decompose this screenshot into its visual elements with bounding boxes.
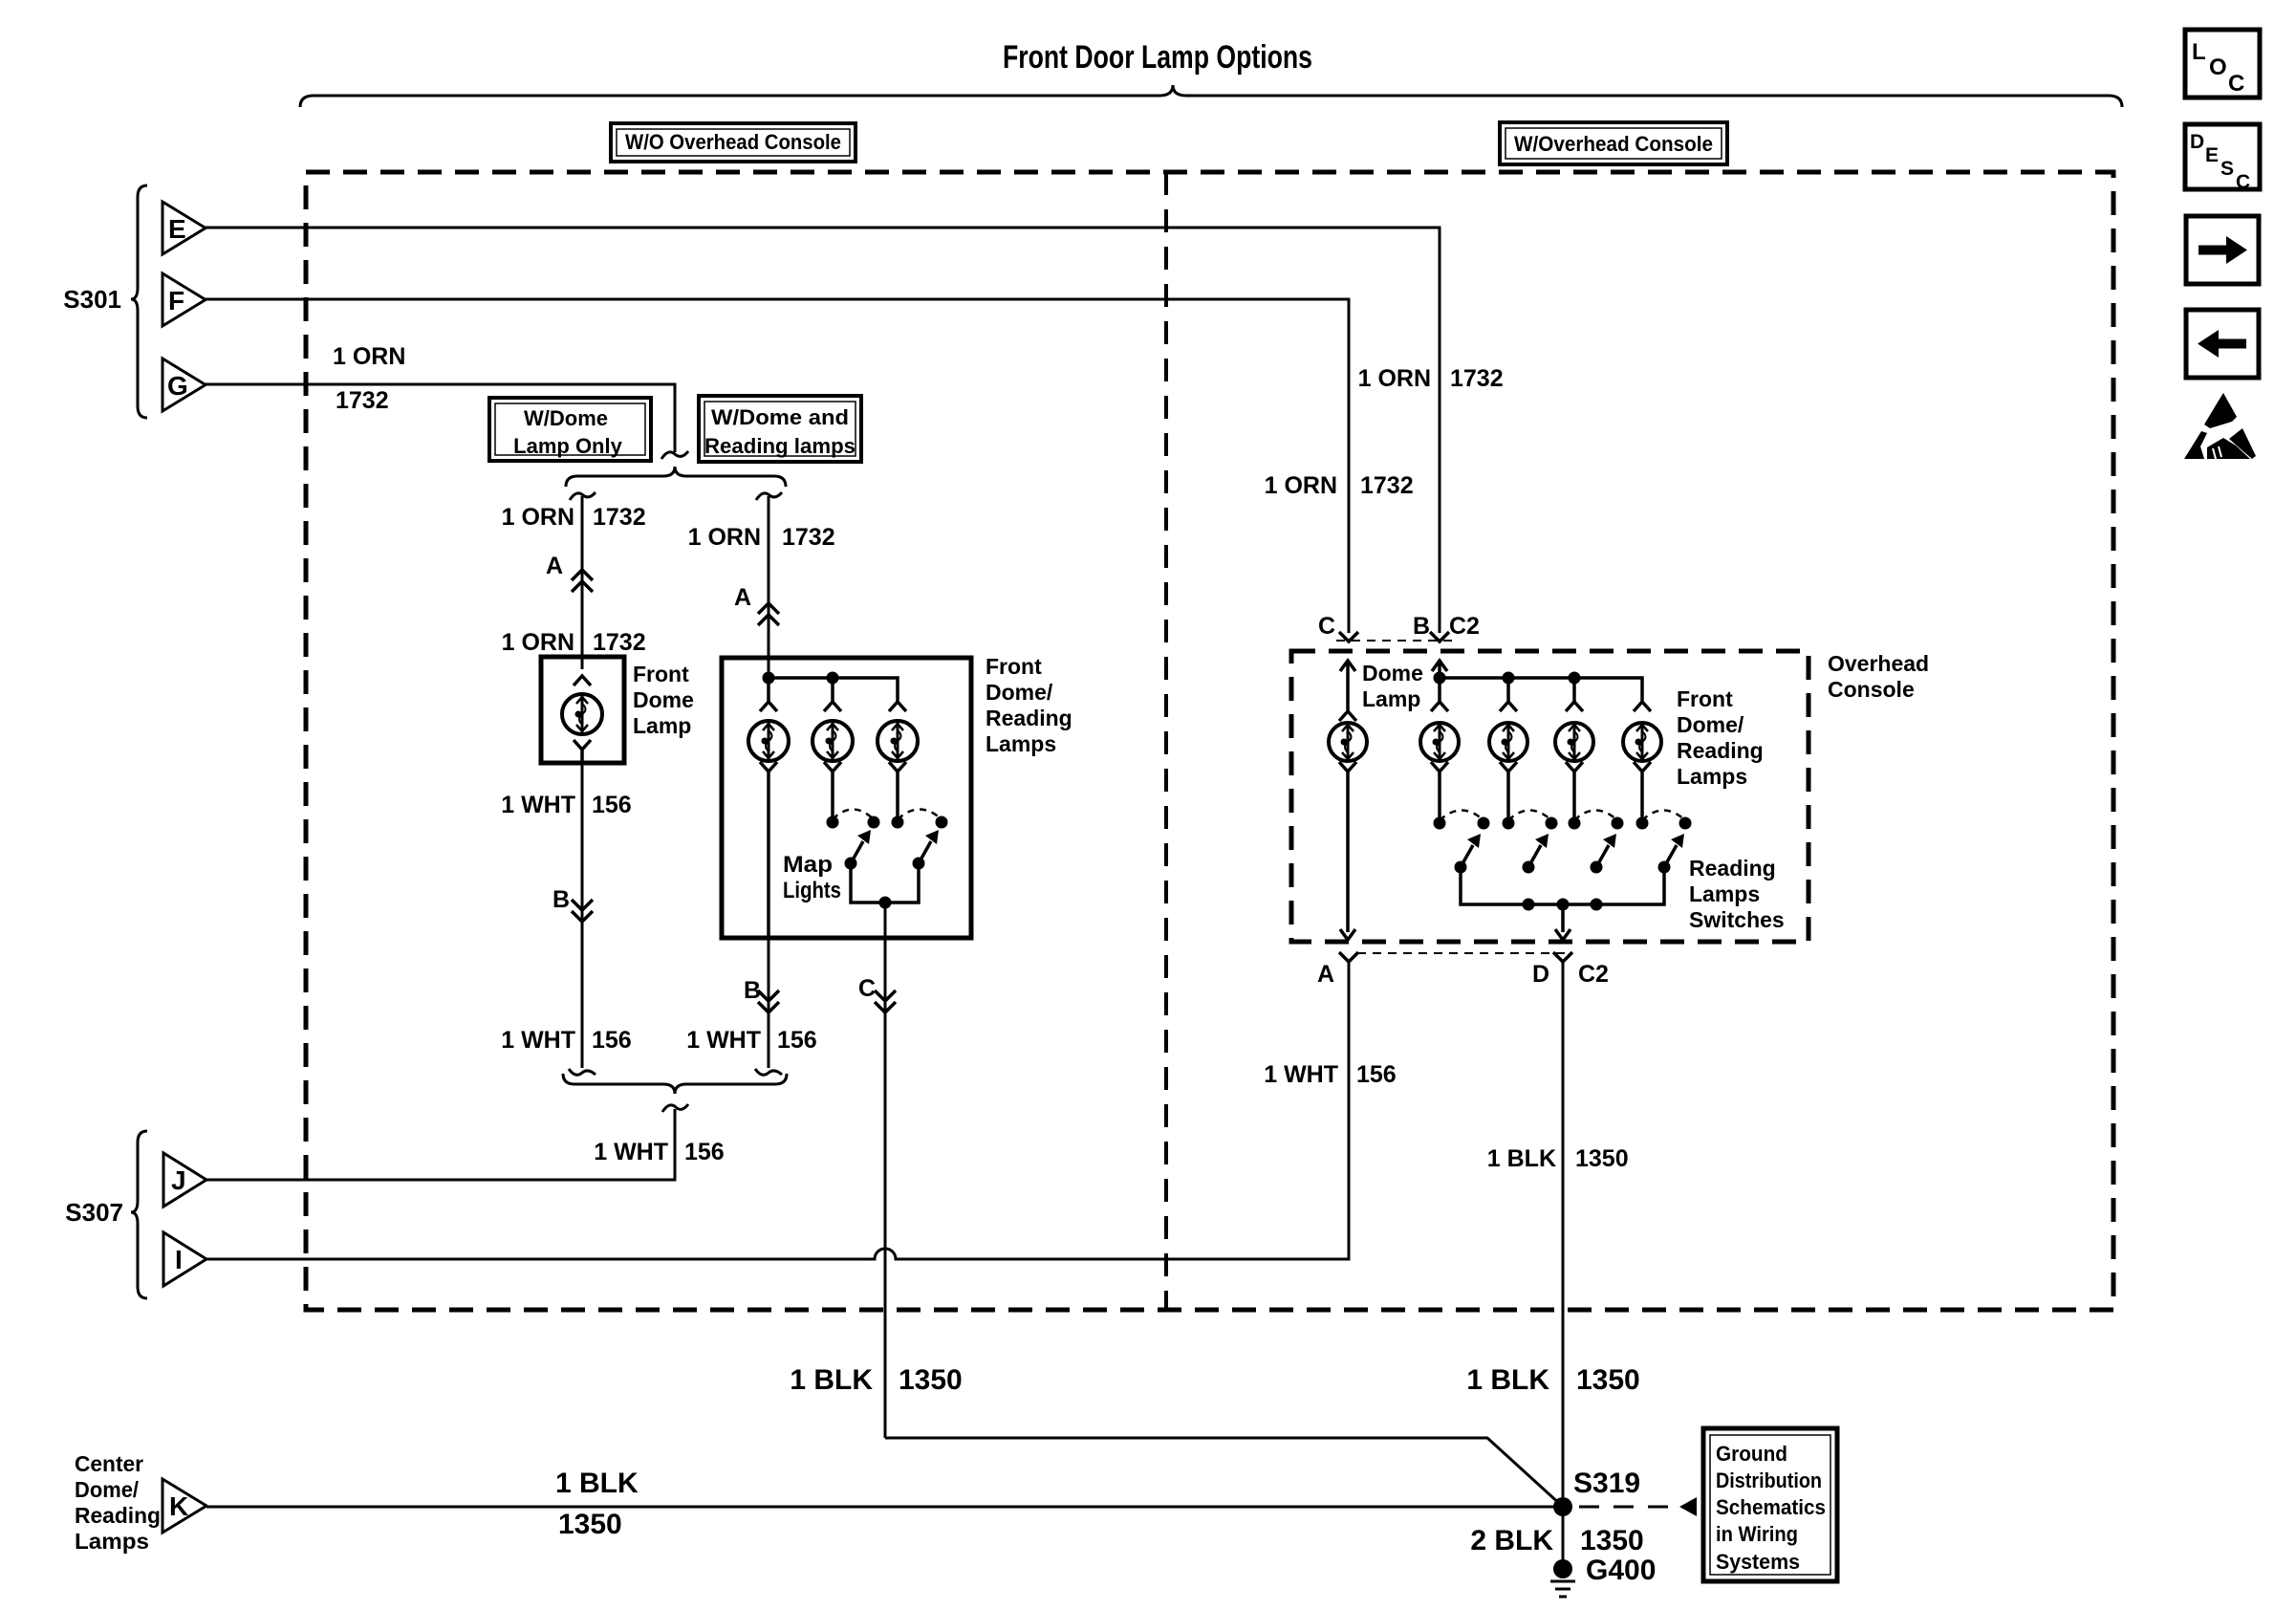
node: console switch 1 throw bbox=[1478, 817, 1490, 830]
svg-text:S307: S307 bbox=[65, 1198, 123, 1227]
svg-text:1350: 1350 bbox=[558, 1509, 622, 1540]
svg-text:1 ORN: 1 ORN bbox=[1265, 472, 1337, 499]
component box: Front Dome/Reading Lamps (map lights) bbox=[722, 658, 971, 938]
svg-text:1 ORN: 1 ORN bbox=[502, 629, 574, 656]
lamp: dome lamp (map box, left) bbox=[748, 721, 789, 761]
svg-text:156: 156 bbox=[592, 792, 632, 818]
lamp terminal chevron (console lamp 3) bbox=[1566, 702, 1583, 711]
svg-text:1732: 1732 bbox=[1450, 365, 1504, 392]
svg-text:Lamps: Lamps bbox=[75, 1529, 149, 1554]
wire: D to S319 (1 BLK 1350) bbox=[1562, 962, 1565, 1507]
lamp: console reading lamp 2 bbox=[1489, 723, 1527, 761]
wire break tilde at left branch bottom bbox=[569, 1069, 596, 1075]
dashed divider between W/O and W/ sections bbox=[1164, 172, 1168, 1310]
svg-text:D: D bbox=[1532, 961, 1549, 988]
svg-text:Schematics: Schematics bbox=[1716, 1495, 1826, 1519]
svg-text:1732: 1732 bbox=[336, 387, 389, 414]
label: Front Dome Lamp bbox=[633, 662, 694, 738]
wire: map lamp 3 to switch pole bbox=[896, 784, 899, 816]
svg-text:1732: 1732 bbox=[1360, 472, 1414, 499]
wire: splice to connector J (1 WHT 156) bbox=[206, 1109, 675, 1180]
lamp terminal chevron (map lamp 1) bbox=[760, 702, 777, 711]
svg-text:Systems: Systems bbox=[1716, 1550, 1800, 1574]
connector half Y at A pin bbox=[1339, 952, 1358, 962]
svg-text:Lamp: Lamp bbox=[1362, 686, 1420, 711]
svg-text:1 WHT: 1 WHT bbox=[594, 1139, 668, 1165]
svg-text:2 BLK: 2 BLK bbox=[1470, 1525, 1553, 1556]
svg-text:Front: Front bbox=[986, 654, 1042, 679]
component box: Front Dome Lamp bbox=[541, 657, 624, 763]
lamp: console dome lamp bbox=[1329, 723, 1367, 761]
svg-text:1732: 1732 bbox=[593, 504, 646, 531]
wire break tilde at B output bottom bbox=[755, 1069, 782, 1075]
wire: left lamp stem bbox=[767, 678, 770, 702]
node: console output bus junction 2 bbox=[1591, 899, 1603, 911]
wire: console ground output D (arrow down) bbox=[1555, 904, 1570, 940]
connector K (center dome/reading lamps) bbox=[162, 1479, 206, 1533]
svg-text:1732: 1732 bbox=[782, 524, 835, 551]
wire: G feed to dome lamp options (1 ORN 1732) bbox=[206, 384, 675, 452]
wire: K to S319 (1 BLK 1350) bbox=[206, 1506, 1558, 1509]
svg-text:C2: C2 bbox=[1449, 613, 1480, 640]
svg-text:I: I bbox=[175, 1245, 183, 1274]
switch arm 1 (console) bbox=[1455, 834, 1482, 874]
svg-text:W/Dome: W/Dome bbox=[524, 406, 608, 430]
svg-text:C2: C2 bbox=[1578, 961, 1609, 988]
wire: console switch commons to output bus bbox=[1461, 867, 1664, 904]
svg-text:Lamp: Lamp bbox=[633, 713, 691, 738]
icon box arrow right bbox=[2186, 216, 2259, 284]
node: output bus junction bbox=[879, 897, 892, 909]
connector F (S301 pin F) bbox=[162, 273, 206, 326]
svg-text:in Wiring: in Wiring bbox=[1716, 1522, 1798, 1546]
switch arm 3 (console) bbox=[1591, 834, 1617, 874]
brace: S307 connector group bbox=[131, 1131, 147, 1298]
lamp terminal Y (console lamp 4 bottom) bbox=[1634, 762, 1651, 784]
wire: console lamp 1 stem bbox=[1438, 678, 1441, 702]
svg-text:Front Door Lamp Options: Front Door Lamp Options bbox=[1003, 39, 1312, 76]
lamp terminal chevron (console dome lamp) bbox=[1339, 711, 1356, 721]
wire: map lamp 2 to switch pole bbox=[831, 784, 834, 816]
lamp: console reading lamp 1 bbox=[1420, 723, 1459, 761]
svg-text:Dome/: Dome/ bbox=[1677, 712, 1744, 737]
dashed gang link switch 2 bbox=[898, 810, 942, 820]
svg-text:Reading: Reading bbox=[1677, 738, 1764, 763]
svg-text:Center: Center bbox=[75, 1451, 143, 1476]
wire: map lights output C down bbox=[884, 903, 887, 1438]
dashed region: W/O + W/ Overhead Console group box bbox=[306, 172, 2113, 1310]
svg-text:Overhead: Overhead bbox=[1828, 651, 1929, 676]
wire: reading-lamps branch down into lamp box (1 ORN 1732) bbox=[768, 496, 770, 678]
svg-text:W/Overhead Console: W/Overhead Console bbox=[1514, 132, 1713, 156]
connector half Y at C pin bbox=[1339, 632, 1358, 642]
svg-text:Lamps: Lamps bbox=[1689, 881, 1760, 906]
inline connector chevrons B (map box output) bbox=[758, 990, 779, 1012]
dashed gang link console switch 4 bbox=[1642, 811, 1685, 821]
svg-text:156: 156 bbox=[684, 1139, 725, 1165]
svg-text:Dome: Dome bbox=[633, 687, 694, 712]
svg-text:Reading: Reading bbox=[75, 1503, 161, 1528]
node: console bus junction 2 bbox=[1503, 672, 1515, 685]
node: switch 1 pole bbox=[827, 816, 839, 829]
inline connector chevrons B (left branch, down) bbox=[572, 900, 593, 922]
wire: switch commons to output bus bbox=[851, 863, 919, 903]
svg-text:1350: 1350 bbox=[1576, 1364, 1640, 1396]
lamp terminal Y (dome lamp bottom) bbox=[574, 740, 591, 763]
svg-text:Map: Map bbox=[783, 852, 833, 878]
wire: S319 to ground G400 bbox=[1562, 1507, 1565, 1569]
wire break tilde at G wire end bbox=[661, 451, 688, 459]
svg-text:Lights: Lights bbox=[783, 878, 841, 903]
svg-text:W/Dome and: W/Dome and bbox=[711, 405, 849, 429]
brace: front door lamp options span bbox=[300, 85, 2122, 107]
wire: console dome lamp return to A pin (arrow down) bbox=[1340, 784, 1355, 940]
svg-text:Dome/: Dome/ bbox=[75, 1477, 140, 1502]
node: console switch 3 throw bbox=[1612, 817, 1624, 830]
svg-text:1 WHT: 1 WHT bbox=[501, 792, 575, 818]
connector G (S301 pin G) bbox=[162, 359, 206, 411]
label: Front Dome/ Reading Lamps (console) bbox=[1677, 686, 1764, 789]
ground G400 bbox=[1550, 1559, 1575, 1597]
svg-text:D: D bbox=[2190, 131, 2204, 153]
lamp: map light lamp 3 bbox=[877, 721, 918, 761]
node: bus junction at feed bbox=[763, 672, 775, 685]
svg-text:1 ORN: 1 ORN bbox=[333, 343, 405, 370]
wire: lamp feed bus bbox=[769, 678, 898, 702]
node: console switch 1 pole bbox=[1434, 817, 1446, 830]
node: console bus junction 1 bbox=[1434, 672, 1446, 685]
node: console switch 4 pole bbox=[1636, 817, 1649, 830]
switch arm 2 (console) bbox=[1523, 834, 1549, 874]
label box: W/Overhead Console bbox=[1500, 122, 1727, 164]
lamp terminal chevron (console lamp 1) bbox=[1431, 702, 1448, 711]
svg-text:S: S bbox=[2220, 158, 2234, 180]
inline connector chevrons A (left branch) bbox=[572, 570, 593, 592]
brace: options split (opens down) bbox=[566, 467, 786, 487]
svg-text:G: G bbox=[167, 371, 188, 401]
svg-text:1350: 1350 bbox=[1575, 1145, 1629, 1172]
node: console switch 4 throw bbox=[1679, 817, 1692, 830]
switch arm 1 (map lights) bbox=[845, 830, 872, 870]
lamp terminal chevron (console lamp 2) bbox=[1500, 702, 1517, 711]
svg-text:L: L bbox=[2192, 39, 2206, 65]
lamp terminal Y (console lamp 3 bottom) bbox=[1566, 762, 1583, 784]
svg-text:C: C bbox=[858, 975, 876, 1002]
svg-text:1732: 1732 bbox=[593, 629, 646, 656]
svg-text:Distribution: Distribution bbox=[1716, 1469, 1822, 1492]
switch arm 2 (map lights) bbox=[913, 830, 940, 870]
svg-text:Reading lamps: Reading lamps bbox=[704, 434, 856, 458]
svg-text:C: C bbox=[2236, 171, 2250, 193]
lamp terminal chevron (map lamp 2) bbox=[824, 702, 841, 711]
node: console output bus junction 1 bbox=[1523, 899, 1535, 911]
wire: console lamp 2 stem bbox=[1506, 678, 1510, 702]
svg-text:A: A bbox=[734, 584, 751, 611]
wire break tilde at right option branch top bbox=[756, 492, 782, 500]
svg-text:Lamp Only: Lamp Only bbox=[513, 434, 622, 458]
svg-text:O: O bbox=[2209, 54, 2227, 80]
lamp terminal chevron (console lamp 4) bbox=[1634, 702, 1651, 711]
dashed gang link switch 1 bbox=[833, 810, 874, 820]
dashed component box: Overhead Console bbox=[1291, 651, 1809, 942]
svg-text:B: B bbox=[1413, 613, 1430, 640]
wire: console lamp bus bbox=[1440, 678, 1642, 702]
dashed gang link console switch 3 bbox=[1574, 811, 1617, 821]
svg-text:Console: Console bbox=[1828, 677, 1915, 702]
svg-text:1 BLK: 1 BLK bbox=[1466, 1364, 1549, 1396]
wire: console lamp 1 to switch pole bbox=[1438, 784, 1441, 817]
wire: dome lamp output through box (B) bbox=[767, 784, 770, 938]
svg-text:B: B bbox=[552, 886, 570, 913]
svg-text:W/O Overhead Console: W/O Overhead Console bbox=[625, 130, 841, 154]
svg-text:F: F bbox=[168, 286, 184, 315]
svg-text:K: K bbox=[169, 1491, 188, 1521]
node: console switch 2 pole bbox=[1503, 817, 1515, 830]
connector half Y at D pin bbox=[1553, 952, 1572, 962]
node: switch 2 throw bbox=[936, 816, 948, 829]
svg-text:G400: G400 bbox=[1586, 1555, 1656, 1586]
icon box LOC bbox=[2185, 30, 2260, 98]
svg-text:1 BLK: 1 BLK bbox=[1487, 1145, 1556, 1172]
svg-text:Ground: Ground bbox=[1716, 1442, 1787, 1466]
label: Center Dome/ Reading Lamps bbox=[75, 1451, 161, 1554]
wire: reading lamps feed entering console (arrow up) bbox=[1432, 661, 1447, 678]
lamp terminal chevron (map lamp 3) bbox=[889, 702, 906, 711]
node: console switch 2 throw bbox=[1546, 817, 1558, 830]
svg-text:Reading: Reading bbox=[1689, 856, 1776, 881]
lamp: console reading lamp 3 bbox=[1555, 723, 1593, 761]
dashed gang link console switch 1 bbox=[1440, 811, 1484, 821]
svg-text:Dome/: Dome/ bbox=[986, 680, 1053, 705]
svg-text:E: E bbox=[168, 214, 186, 244]
svg-text:Lamps: Lamps bbox=[1677, 764, 1747, 789]
node: bus junction middle lamp bbox=[827, 672, 839, 685]
wire: C ground run to S319 bbox=[885, 1438, 1562, 1506]
dashed reference line from S319 bbox=[1579, 1506, 1670, 1509]
svg-text:1 ORN: 1 ORN bbox=[1358, 365, 1431, 392]
svg-text:1 WHT: 1 WHT bbox=[1264, 1061, 1338, 1088]
svg-text:Dome: Dome bbox=[1362, 661, 1423, 685]
label: Overhead Console bbox=[1828, 651, 1929, 702]
wire: I to overhead console pin A (1 WHT 156) with hop over C wire bbox=[206, 963, 1349, 1259]
wire: console lamp 4 to switch pole bbox=[1640, 784, 1644, 817]
svg-text:1 WHT: 1 WHT bbox=[501, 1027, 575, 1054]
lamp terminal Y (map lamp 1 bottom) bbox=[760, 762, 777, 784]
connector J (S307 pin J) bbox=[163, 1153, 206, 1207]
lamp terminal Y (console dome lamp bottom) bbox=[1339, 762, 1356, 784]
wire: console lamp 3 to switch pole bbox=[1572, 784, 1576, 817]
label: Map Lights bbox=[783, 852, 841, 903]
svg-text:J: J bbox=[171, 1165, 186, 1195]
connector line C2 top (thin dashed) bbox=[1336, 640, 1458, 642]
inline connector chevrons A (right branch) bbox=[758, 603, 779, 625]
label box: W/Dome and Reading lamps bbox=[699, 396, 861, 462]
svg-text:1 BLK: 1 BLK bbox=[555, 1468, 639, 1499]
lamp terminal Y (map lamp 3 bottom) bbox=[889, 762, 906, 784]
node: console bus junction 3 bbox=[1569, 672, 1581, 685]
reference box: Ground Distribution Schematics in Wiring Systems bbox=[1703, 1428, 1837, 1581]
label box: W/O Overhead Console bbox=[611, 123, 856, 162]
lamp terminal Y (map lamp 2 bottom) bbox=[824, 762, 841, 784]
svg-text:Switches: Switches bbox=[1689, 907, 1785, 932]
wire: middle lamp stem bbox=[831, 678, 834, 702]
svg-text:1350: 1350 bbox=[899, 1364, 963, 1396]
svg-text:1 ORN: 1 ORN bbox=[688, 524, 761, 551]
lamp: map light lamp 2 bbox=[812, 721, 853, 761]
connector half Y at A pin bottom dashed line bbox=[1357, 952, 1568, 954]
wire break tilde below splice brace bbox=[662, 1104, 688, 1112]
svg-text:C: C bbox=[2228, 71, 2244, 97]
svg-text:S319: S319 bbox=[1573, 1468, 1640, 1499]
lamp terminal Y (console lamp 1 bottom) bbox=[1431, 762, 1448, 784]
node: console output bus junction D bbox=[1557, 899, 1570, 911]
label: Dome Lamp bbox=[1362, 661, 1423, 711]
svg-text:Lamps: Lamps bbox=[986, 731, 1056, 756]
lamp: front dome lamp bbox=[562, 694, 602, 734]
wire break tilde at left option branch top bbox=[570, 492, 596, 500]
dashed gang link console switch 2 bbox=[1508, 811, 1551, 821]
svg-text:1 BLK: 1 BLK bbox=[790, 1364, 873, 1396]
svg-text:Front: Front bbox=[1677, 686, 1733, 711]
svg-text:156: 156 bbox=[1356, 1061, 1397, 1088]
wire: dome lamp to splice (1 WHT 156) bbox=[581, 762, 584, 1068]
wire: E to overhead console pin B (1 ORN 1732) bbox=[206, 228, 1440, 633]
connector I (S307 pin I) bbox=[163, 1232, 206, 1286]
node: switch 1 throw bbox=[868, 816, 880, 829]
svg-text:1 WHT: 1 WHT bbox=[686, 1027, 761, 1054]
connector half Y at B pin bbox=[1430, 632, 1449, 642]
reference arrowhead bbox=[1679, 1497, 1697, 1516]
svg-text:Front: Front bbox=[633, 662, 689, 686]
switch arm 4 (console) bbox=[1658, 834, 1685, 874]
lamp terminal Y (console lamp 2 bottom) bbox=[1500, 762, 1517, 784]
brace: S301 connector group bbox=[131, 185, 147, 418]
wire: B output down to splice bbox=[768, 938, 770, 1068]
wire: dome lamp feed entering console (arrow up) bbox=[1340, 661, 1355, 711]
svg-text:A: A bbox=[1317, 961, 1334, 988]
wire: dome-lamp-only branch down to lamp (1 ORN 1732) bbox=[581, 496, 584, 669]
node: splice S319 bbox=[1553, 1497, 1572, 1516]
svg-text:1350: 1350 bbox=[1580, 1525, 1644, 1556]
svg-text:Reading: Reading bbox=[986, 706, 1072, 730]
connector E (S301 pin E) bbox=[162, 202, 206, 254]
svg-text:C: C bbox=[1318, 613, 1335, 640]
svg-text:S301: S301 bbox=[63, 285, 121, 314]
label: Front Dome/ Reading Lamps (map box) bbox=[986, 654, 1072, 756]
svg-text:A: A bbox=[546, 553, 563, 579]
icon box DESC bbox=[2185, 124, 2260, 193]
lamp terminal chevron (dome lamp top) bbox=[574, 676, 591, 685]
inline connector chevrons C (map box output) bbox=[875, 990, 896, 1012]
icon box arrow left bbox=[2186, 310, 2259, 378]
label: Reading Lamps Switches bbox=[1689, 856, 1785, 932]
brace: WHT splice join (opens up) bbox=[563, 1074, 787, 1094]
svg-text:1 ORN: 1 ORN bbox=[502, 504, 574, 531]
lamp: console reading lamp 4 bbox=[1623, 723, 1661, 761]
wire: console lamp 2 to switch pole bbox=[1506, 784, 1510, 817]
svg-text:156: 156 bbox=[777, 1027, 817, 1054]
node: switch 2 pole bbox=[892, 816, 904, 829]
wire: console lamp 3 stem bbox=[1572, 678, 1576, 702]
title: Front Door Lamp Options bbox=[1003, 39, 1312, 76]
icon ESD symbol bbox=[2184, 393, 2256, 459]
label box: W/Dome Lamp Only bbox=[489, 398, 651, 461]
svg-text:156: 156 bbox=[592, 1027, 632, 1054]
wire: F to overhead console pin C (1 ORN 1732) bbox=[206, 299, 1349, 633]
node: console switch 3 pole bbox=[1569, 817, 1581, 830]
svg-text:E: E bbox=[2205, 144, 2219, 166]
